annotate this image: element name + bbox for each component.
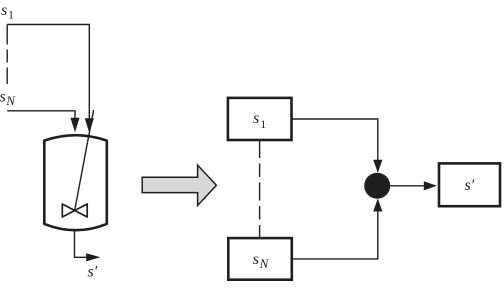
svg-text:1: 1 (260, 117, 266, 131)
svg-text:s: s (253, 110, 259, 127)
svg-text:N: N (5, 93, 16, 108)
svg-text:s: s (1, 2, 7, 19)
svg-text:s: s (0, 89, 6, 106)
svg-text:1: 1 (8, 8, 14, 22)
svg-text:s: s (253, 251, 259, 268)
svg-text:s′: s′ (88, 264, 98, 281)
svg-text:N: N (259, 256, 270, 271)
svg-text:s′: s′ (465, 177, 475, 194)
